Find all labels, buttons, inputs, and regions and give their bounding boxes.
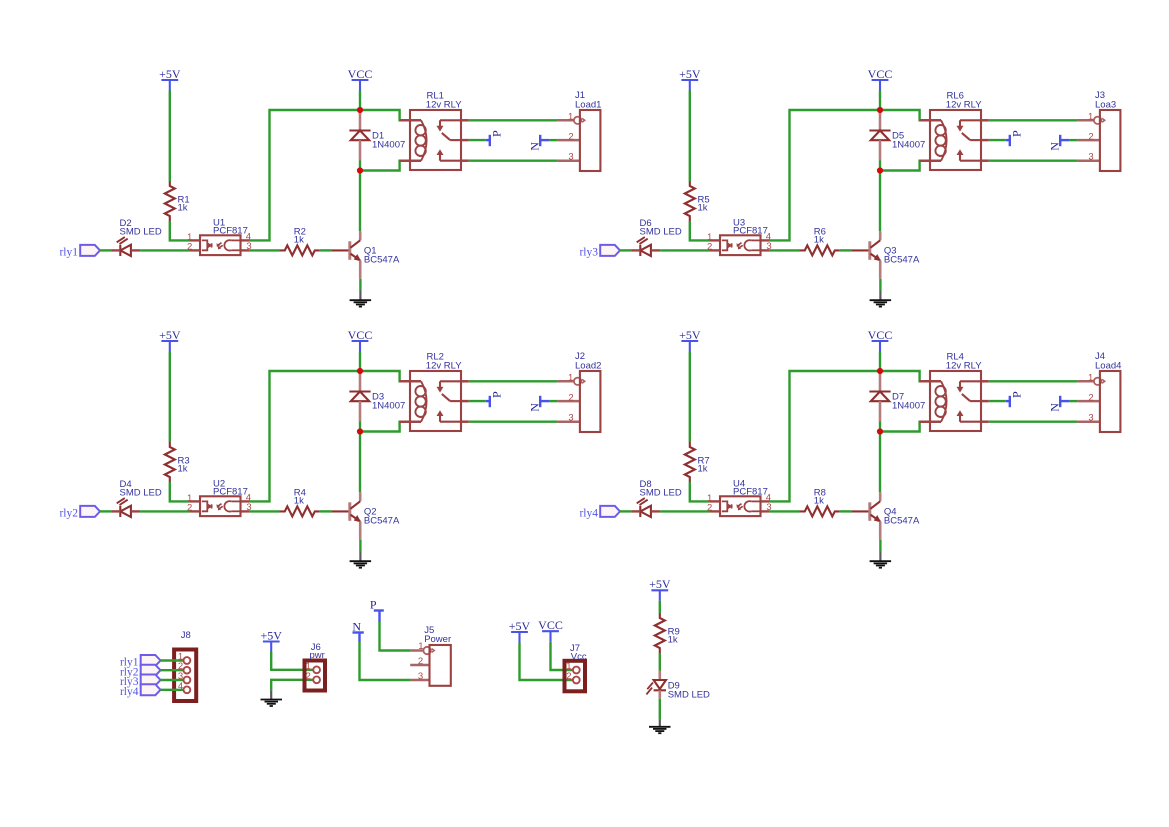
wire R6 to Q3 base — [840, 249, 852, 251]
svg-text:P: P — [490, 391, 504, 398]
J8 pin3 — [178, 671, 190, 683]
svg-text:rly4: rly4 — [579, 508, 598, 520]
wire node to RL2 coil top — [360, 371, 410, 381]
wire P to J5 pin1 — [380, 622, 411, 651]
LED D4 SMD LED — [111, 479, 162, 517]
svg-text:3: 3 — [568, 152, 573, 163]
svg-text:rly3: rly3 — [579, 247, 598, 259]
wire ground to J6 pin2 — [271, 680, 313, 690]
svg-text:Vcc: Vcc — [571, 652, 587, 663]
svg-text:1: 1 — [568, 373, 573, 384]
svg-text:SMD LED: SMD LED — [640, 226, 682, 237]
wire Q4 emitter to ground — [879, 540, 881, 552]
svg-text:rly4: rly4 — [120, 686, 139, 698]
wire U1 pin4 to VCC node — [250, 110, 360, 240]
wire RL6 NO to J3 pin1 — [989, 119, 1078, 121]
transistor Q2 BC547A — [332, 492, 400, 540]
svg-text:+5V: +5V — [509, 619, 531, 633]
junction VCC node — [877, 107, 883, 113]
wire U2 pin3 to R4 — [250, 510, 280, 512]
svg-text:Power: Power — [424, 634, 451, 645]
wire +5V to R5 — [689, 91, 691, 182]
wire VCC to J7 pin1 — [551, 642, 574, 670]
wire rly3 to D6 — [620, 249, 631, 251]
svg-text:BC547A: BC547A — [884, 516, 920, 527]
net flag P (ch1) — [486, 130, 504, 146]
svg-text:2: 2 — [1088, 131, 1093, 142]
svg-text:2: 2 — [1088, 392, 1093, 403]
net flag rly3 — [579, 245, 620, 259]
relay RL1 12v RLY — [400, 91, 469, 170]
wire R2 to Q1 base — [320, 249, 332, 251]
diode D3 1N4007 — [349, 371, 405, 422]
svg-text:BC547A: BC547A — [364, 516, 400, 527]
svg-text:1k: 1k — [178, 202, 188, 213]
LED D8 SMD LED — [631, 479, 682, 517]
resistor R5 1k — [685, 181, 710, 221]
svg-text:rly1: rly1 — [59, 247, 78, 259]
wire Q1 emitter to ground — [359, 279, 361, 291]
svg-text:PCF817: PCF817 — [733, 487, 768, 498]
svg-text:1k: 1k — [698, 463, 708, 474]
svg-text:1k: 1k — [814, 234, 824, 245]
ground (ch4) — [870, 552, 892, 568]
wire N flag to J4 pin2 — [1070, 400, 1078, 402]
svg-text:1: 1 — [1088, 373, 1093, 384]
svg-text:+5V: +5V — [159, 67, 181, 81]
net flag N (ch1) — [527, 135, 549, 151]
svg-text:BC547A: BC547A — [884, 255, 920, 266]
svg-text:1k: 1k — [294, 495, 304, 506]
wire D1 to collector node — [359, 161, 361, 171]
wire VCC to node — [359, 352, 361, 372]
optocoupler U1 PCF817 — [187, 217, 252, 255]
svg-text:+5V: +5V — [679, 67, 701, 81]
wire node to Q4 collector — [879, 432, 881, 493]
power flag VCC (J7) — [538, 618, 563, 642]
power flag +5V (J6) — [260, 628, 282, 652]
ground (J6) — [261, 690, 283, 706]
wire +5V to J7 pin2 — [520, 643, 574, 681]
wire N flag to J2 pin2 — [550, 400, 558, 402]
svg-text:VCC: VCC — [868, 328, 893, 342]
ground (ch3) — [350, 552, 372, 568]
resistor R4 1k — [280, 487, 320, 516]
svg-text:2: 2 — [568, 392, 573, 403]
wire D7 to collector node — [879, 422, 881, 432]
svg-text:3: 3 — [1088, 152, 1093, 163]
resistor R6 1k — [800, 226, 840, 255]
wire +5V to R9 — [659, 601, 661, 613]
svg-text:+5V: +5V — [159, 328, 181, 342]
svg-text:3: 3 — [418, 671, 423, 682]
net flag N (ch4) — [1047, 396, 1069, 412]
svg-text:BC547A: BC547A — [364, 255, 400, 266]
wire U4 pin4 to VCC node — [770, 371, 880, 501]
wire N flag to J1 pin2 — [550, 139, 558, 141]
net flag P (ch2) — [1006, 130, 1024, 146]
wire VCC to node — [879, 91, 881, 111]
J8 pin1 — [178, 652, 190, 664]
diode D5 1N4007 — [869, 110, 925, 161]
ground (ch1) — [350, 291, 372, 307]
svg-text:2: 2 — [707, 503, 712, 514]
svg-text:N: N — [527, 142, 541, 151]
optocoupler U3 PCF817 — [707, 217, 772, 255]
resistor R7 1k — [685, 442, 710, 482]
wire node to RL6 coil bottom — [880, 161, 930, 171]
transistor Q3 BC547A — [852, 231, 920, 279]
wire U4 pin3 to R8 — [770, 510, 800, 512]
ground (D9) — [649, 719, 671, 733]
wire R3 to U2 pin1 — [170, 482, 190, 501]
svg-text:SMD LED: SMD LED — [668, 689, 710, 700]
power flag VCC (ch3) — [348, 328, 373, 352]
wire rly2 to D4 — [100, 510, 111, 512]
svg-text:12v RLY: 12v RLY — [946, 360, 982, 371]
svg-text:Load2: Load2 — [575, 360, 601, 371]
wire rly4 to J8 pin4 — [161, 689, 184, 691]
wire RL4 NC to J4 pin3 — [989, 421, 1078, 423]
wire D2 to U1 pin2 — [140, 249, 190, 251]
wire U1 pin3 to R2 — [250, 249, 280, 251]
svg-text:N: N — [527, 403, 541, 412]
svg-text:12v RLY: 12v RLY — [426, 360, 462, 371]
svg-text:1k: 1k — [294, 234, 304, 245]
wire +5V to R1 — [169, 91, 171, 182]
svg-text:12v RLY: 12v RLY — [426, 99, 462, 110]
wire RL2 NC to J2 pin3 — [469, 421, 558, 423]
wire RL4 NO to J4 pin1 — [989, 380, 1078, 382]
wire D9 to ground — [659, 699, 661, 720]
svg-text:2: 2 — [187, 503, 192, 514]
transistor Q4 BC547A — [852, 492, 920, 540]
svg-text:3: 3 — [1088, 413, 1093, 424]
wire node to Q2 collector — [359, 432, 361, 493]
svg-text:P: P — [490, 130, 504, 137]
junction collector node — [877, 167, 883, 173]
svg-text:J8: J8 — [181, 630, 191, 641]
power flag VCC (ch1) — [348, 67, 373, 91]
wire node to Q1 collector — [359, 171, 361, 232]
svg-text:2: 2 — [566, 671, 571, 682]
diode D1 1N4007 — [349, 110, 405, 161]
diode D7 1N4007 — [869, 371, 925, 422]
wire VCC to node — [879, 352, 881, 372]
svg-text:PCF817: PCF817 — [213, 226, 248, 237]
resistor R2 1k — [280, 226, 320, 255]
power flag +5V (J7) — [509, 619, 531, 643]
connector J1 Load1 — [557, 90, 601, 171]
wire node to RL4 coil bottom — [880, 422, 930, 432]
svg-text:Load1: Load1 — [575, 99, 601, 110]
svg-text:1N4007: 1N4007 — [372, 400, 405, 411]
power flag VCC (ch2) — [868, 67, 893, 91]
net flag rly4 — [579, 506, 620, 520]
wire RL4 common to P flag — [989, 400, 1006, 402]
wire N flag to J3 pin2 — [1070, 139, 1078, 141]
net flag rly3 (J8) — [120, 675, 161, 689]
wire R7 to U4 pin1 — [690, 482, 710, 501]
wire D6 to U3 pin2 — [660, 249, 710, 251]
svg-text:VCC: VCC — [538, 618, 563, 632]
svg-text:SMD LED: SMD LED — [640, 487, 682, 498]
wire RL1 NO to J1 pin1 — [469, 119, 558, 121]
wire node to Q3 collector — [879, 171, 881, 232]
wire D8 to U4 pin2 — [660, 510, 710, 512]
optocoupler U2 PCF817 — [187, 478, 252, 516]
wire node to RL4 coil top — [880, 371, 930, 381]
junction collector node — [877, 428, 883, 434]
wire N to J5 pin3 — [360, 642, 411, 680]
wire U2 pin4 to VCC node — [250, 371, 360, 501]
connector J8 — [174, 630, 196, 701]
power flag +5V (ch2) — [679, 67, 701, 91]
J8 pin4 — [178, 681, 190, 693]
svg-text:PCF817: PCF817 — [213, 487, 248, 498]
wire node to RL2 coil bottom — [360, 422, 410, 432]
wire VCC to node — [359, 91, 361, 111]
wire rly2 to J8 pin2 — [161, 669, 184, 671]
wire RL2 common to P flag — [469, 400, 486, 402]
LED D2 SMD LED — [111, 218, 162, 256]
net flag P (ch3) — [486, 391, 504, 407]
wire RL2 NO to J2 pin1 — [469, 380, 558, 382]
wire RL1 common to P flag — [469, 139, 486, 141]
svg-text:3: 3 — [568, 413, 573, 424]
wire R9 to D9 — [659, 653, 661, 671]
svg-text:2: 2 — [707, 242, 712, 253]
svg-text:1: 1 — [568, 112, 573, 123]
wire +5V to R3 — [169, 352, 171, 443]
svg-text:2: 2 — [568, 131, 573, 142]
svg-text:1k: 1k — [668, 635, 678, 646]
connector J2 Load2 — [557, 351, 601, 432]
power flag +5V (R9) — [649, 577, 671, 601]
wire U3 pin3 to R6 — [770, 249, 800, 251]
svg-text:1k: 1k — [698, 202, 708, 213]
power flag +5V (ch4) — [679, 328, 701, 352]
wire node to RL1 coil bottom — [360, 161, 410, 171]
optocoupler U4 PCF817 — [707, 478, 772, 516]
net flag rly2 — [59, 506, 100, 520]
resistor R9 1k — [655, 613, 680, 653]
svg-text:P: P — [1010, 130, 1024, 137]
transistor Q1 BC547A — [332, 231, 400, 279]
relay RL6 12v RLY — [920, 91, 989, 170]
svg-text:VCC: VCC — [348, 328, 373, 342]
net flag rly4 (J8) — [120, 684, 161, 698]
svg-text:1N4007: 1N4007 — [892, 400, 925, 411]
svg-text:+5V: +5V — [679, 328, 701, 342]
J8 pin2 — [178, 661, 190, 673]
ground (ch2) — [870, 291, 892, 307]
svg-text:P: P — [1010, 391, 1024, 398]
LED D9 SMD LED — [646, 671, 710, 701]
svg-text:2: 2 — [418, 656, 423, 667]
wire rly1 to J8 pin1 — [161, 659, 184, 661]
svg-text:4: 4 — [178, 681, 183, 692]
junction VCC node — [357, 107, 363, 113]
net flag N (ch3) — [527, 396, 549, 412]
power flag +5V (ch3) — [159, 328, 181, 352]
svg-text:+5V: +5V — [649, 577, 671, 591]
relay RL2 12v RLY — [400, 352, 469, 431]
wire Q3 emitter to ground — [879, 279, 881, 291]
svg-text:1k: 1k — [814, 495, 824, 506]
resistor R1 1k — [165, 181, 190, 221]
wire R1 to U1 pin1 — [170, 221, 190, 240]
svg-text:N: N — [1047, 403, 1061, 412]
svg-text:Loa3: Loa3 — [1095, 99, 1116, 110]
svg-text:VCC: VCC — [348, 67, 373, 81]
connector J6 pwr — [305, 642, 326, 691]
wire node to RL1 coil top — [360, 110, 410, 120]
svg-text:1: 1 — [1088, 112, 1093, 123]
svg-text:VCC: VCC — [868, 67, 893, 81]
resistor R8 1k — [800, 487, 840, 516]
net flag N (ch2) — [1047, 135, 1069, 151]
resistor R3 1k — [165, 442, 190, 482]
wire R4 to Q2 base — [320, 510, 332, 512]
wire D4 to U2 pin2 — [140, 510, 190, 512]
wire rly4 to D8 — [620, 510, 631, 512]
wire RL6 common to P flag — [989, 139, 1006, 141]
svg-text:SMD LED: SMD LED — [120, 226, 162, 237]
wire R5 to U3 pin1 — [690, 221, 710, 240]
connector J4 Load4 — [1077, 351, 1121, 432]
svg-text:PCF817: PCF817 — [733, 226, 768, 237]
svg-text:N: N — [352, 619, 361, 633]
connector J5 Power — [410, 625, 451, 686]
junction VCC node — [357, 368, 363, 374]
connector J7 Vcc — [565, 643, 587, 691]
junction VCC node — [877, 368, 883, 374]
net flag rly1 — [59, 245, 100, 259]
wire +5V to R7 — [689, 352, 691, 443]
svg-text:Load4: Load4 — [1095, 360, 1121, 371]
wire Q2 emitter to ground — [359, 540, 361, 552]
wire RL6 NC to J3 pin3 — [989, 159, 1078, 161]
net flag rly2 (J8) — [120, 665, 161, 679]
power flag VCC (ch4) — [868, 328, 893, 352]
relay RL4 12v RLY — [920, 352, 989, 431]
svg-text:P: P — [370, 597, 377, 611]
net flag P (J5) — [370, 597, 384, 622]
svg-text:2: 2 — [187, 242, 192, 253]
wire D5 to collector node — [879, 161, 881, 171]
svg-text:2: 2 — [306, 671, 311, 682]
wire RL1 NC to J1 pin3 — [469, 159, 558, 161]
svg-text:1N4007: 1N4007 — [372, 139, 405, 150]
wire D3 to collector node — [359, 422, 361, 432]
svg-text:1: 1 — [418, 641, 423, 652]
svg-text:SMD LED: SMD LED — [120, 487, 162, 498]
connector J3 Loa3 — [1077, 90, 1120, 171]
svg-text:1N4007: 1N4007 — [892, 139, 925, 150]
net flag N (J5) — [352, 619, 363, 642]
junction collector node — [357, 167, 363, 173]
junction collector node — [357, 428, 363, 434]
svg-text:rly2: rly2 — [59, 508, 78, 520]
wire +5V to J6 pin1 — [271, 652, 313, 670]
wire node to RL6 coil top — [880, 110, 930, 120]
svg-text:+5V: +5V — [260, 628, 282, 642]
power flag +5V (ch1) — [159, 67, 181, 91]
wire R8 to Q4 base — [840, 510, 852, 512]
wire U3 pin4 to VCC node — [770, 110, 880, 240]
net flag P (ch4) — [1006, 391, 1024, 407]
LED D6 SMD LED — [631, 218, 682, 256]
svg-text:12v RLY: 12v RLY — [946, 99, 982, 110]
wire rly1 to D2 — [100, 249, 111, 251]
wire rly3 to J8 pin3 — [161, 679, 184, 681]
svg-text:N: N — [1047, 142, 1061, 151]
svg-text:1k: 1k — [178, 463, 188, 474]
svg-text:pwr: pwr — [310, 650, 325, 661]
net flag rly1 (J8) — [120, 655, 161, 669]
